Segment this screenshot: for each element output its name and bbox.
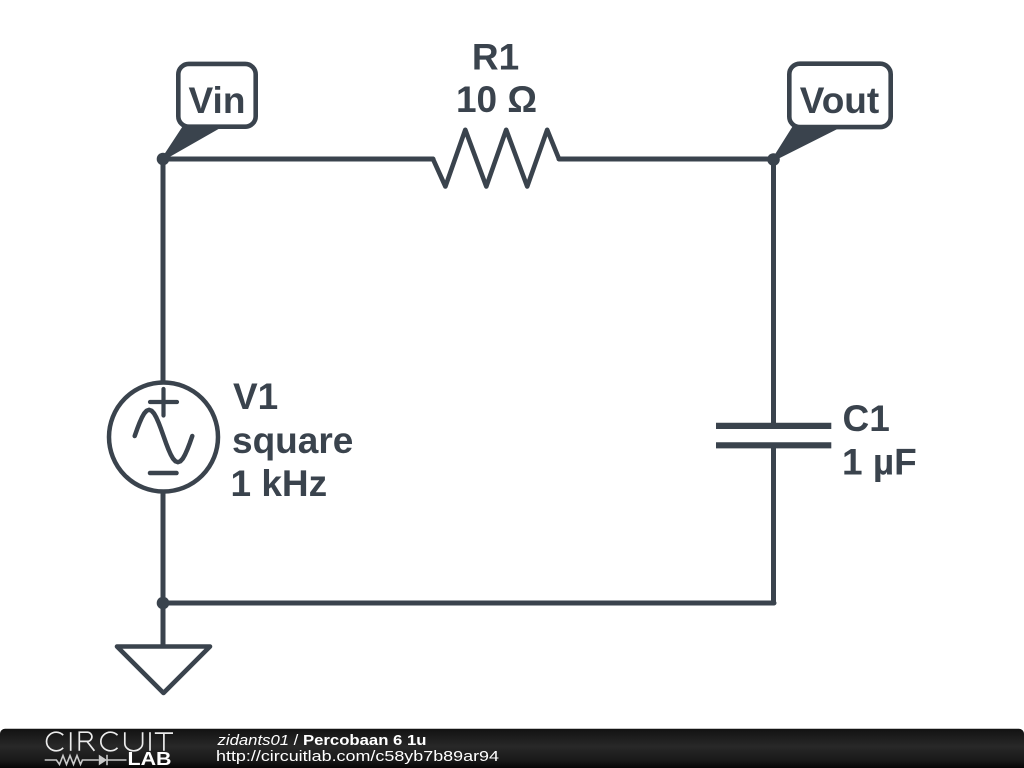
capacitor C1 (716, 426, 831, 445)
footer bar (0, 729, 1024, 768)
net flag Vin (163, 64, 256, 159)
svg-text:10 Ω: 10 Ω (456, 79, 537, 120)
node Vin junction dot (157, 153, 170, 166)
wire top-right (R1 to Vout node) (559, 157, 774, 162)
svg-text:1 µF: 1 µF (842, 442, 917, 483)
svg-text:http://circuitlab.com/c58yb7b8: http://circuitlab.com/c58yb7b89ar94 (216, 748, 499, 765)
svg-text:V1: V1 (233, 376, 278, 417)
CircuitLab logo resistor-diode squiggle (45, 755, 127, 765)
ground (117, 647, 210, 694)
wire left vertical (Vin node to V1 top) (161, 159, 166, 382)
wire top-left (Vin node to R1) (163, 157, 433, 162)
CircuitLab logo wordmark CIRCUIT (47, 732, 173, 751)
net flag Vout (774, 64, 891, 160)
svg-text:square: square (232, 420, 353, 461)
svg-text:C1: C1 (843, 398, 890, 439)
resistor R1 (433, 130, 559, 187)
svg-text:R1: R1 (472, 37, 519, 78)
svg-text:zidants01 / Percobaan 6 1u: zidants01 / Percobaan 6 1u (216, 732, 426, 749)
svg-text:Vin: Vin (189, 80, 246, 121)
wire bottom (ground junction to C1 bottom) (163, 601, 774, 606)
node Vout junction dot (767, 153, 780, 166)
wire V1 bottom to ground junction (161, 492, 166, 603)
svg-text:LAB: LAB (128, 749, 172, 768)
voltage source V1 (109, 383, 218, 492)
wire ground junction stub (161, 603, 166, 646)
svg-text:1 kHz: 1 kHz (231, 463, 328, 504)
wire right vertical upper (Vout node to C1 top plate) (771, 159, 776, 425)
wire right vertical lower (C1 bottom plate to bottom wire) (771, 446, 776, 603)
node ground junction dot (157, 597, 170, 610)
svg-text:Vout: Vout (800, 80, 879, 121)
